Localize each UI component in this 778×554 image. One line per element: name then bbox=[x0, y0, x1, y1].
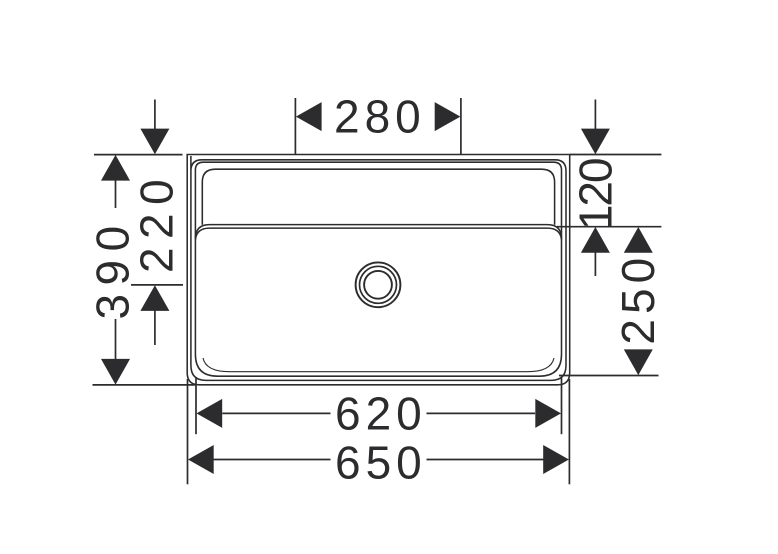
extension line: basin bottom edge to left bbox=[93, 384, 196, 386]
dim 390: top arrowhead (up) bbox=[101, 155, 130, 181]
drain outer circle bbox=[356, 262, 401, 307]
dim 620: extension lines bbox=[195, 377, 197, 434]
dim 650: dimension line segments bbox=[213, 459, 331, 461]
svg-text:620: 620 bbox=[335, 388, 427, 440]
extension line: shelf level to right bbox=[557, 226, 661, 228]
shelf front edge lower line bbox=[195, 228, 561, 240]
dim 650: right arrowhead bbox=[543, 445, 569, 474]
svg-text:120: 120 bbox=[570, 159, 622, 230]
shelf front edge upper line bbox=[195, 225, 561, 239]
dim 120: lower arrow tail bbox=[594, 252, 596, 276]
dim 220: lower arrow tail bbox=[154, 310, 156, 345]
extension line: bowl bottom level to right bbox=[559, 375, 659, 377]
dim 390: bottom arrowhead (down) bbox=[101, 359, 130, 385]
extension line: drain center level (220) on left bbox=[131, 284, 183, 286]
dim 620: dimension line segments bbox=[222, 412, 330, 414]
dim 250: bottom arrowhead (down) bbox=[624, 349, 653, 375]
extension line: basin top edge to left bbox=[94, 154, 183, 156]
bowl bottom inner thin line bbox=[203, 358, 554, 372]
dim 120: top arrowhead (down) bbox=[581, 129, 610, 155]
dim 120/220: upper arrow tails bbox=[594, 100, 596, 130]
washbasin rim outer line bbox=[191, 156, 566, 380]
dim 620: left arrowhead bbox=[197, 399, 223, 428]
dim 220: top arrowhead (down) bbox=[140, 129, 169, 155]
dim 250: top arrowhead (up) bbox=[624, 227, 653, 253]
svg-text:390: 390 bbox=[87, 217, 139, 319]
drain inner circle bbox=[364, 271, 392, 299]
dim 220: bottom arrowhead (up) bbox=[140, 285, 169, 311]
dim 650: left arrowhead bbox=[188, 445, 214, 474]
washbasin rim inner line / bowl edge bbox=[195, 162, 561, 376]
deck (back shelf) edge bbox=[202, 169, 554, 225]
dim 120: bottom arrowhead (up) bbox=[581, 227, 610, 253]
dim 390: bottom arrow tail bbox=[115, 319, 117, 359]
washbasin outer ceramic outline bbox=[187, 155, 570, 385]
dim 650: extension lines bbox=[187, 379, 189, 484]
dim 280: left extension line bbox=[294, 98, 296, 155]
drain middle circle bbox=[360, 266, 397, 303]
dim 280: right arrowhead bbox=[435, 102, 461, 131]
svg-text:650: 650 bbox=[335, 437, 427, 489]
dim 280: left arrowhead bbox=[296, 102, 322, 131]
dim 390: top arrow tail bbox=[115, 180, 117, 208]
extension line: basin top edge to right bbox=[570, 154, 662, 156]
dim 280: right extension line bbox=[460, 98, 462, 155]
dim 620: right arrowhead bbox=[535, 399, 561, 428]
svg-text:280: 280 bbox=[334, 91, 426, 143]
svg-text:250: 250 bbox=[612, 253, 664, 345]
